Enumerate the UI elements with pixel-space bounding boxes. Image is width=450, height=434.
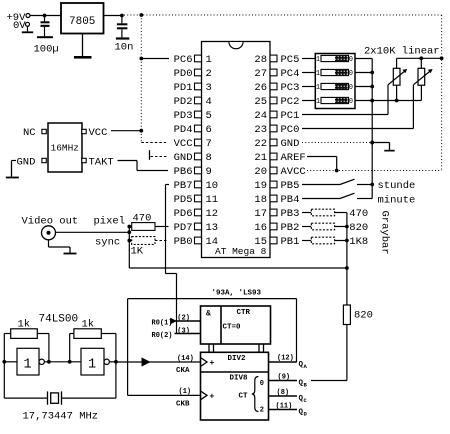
svg-text:VCC: VCC — [174, 138, 193, 150]
svg-text:0: 0 — [349, 70, 353, 78]
svg-text:CT=0: CT=0 — [223, 323, 242, 331]
svg-text:AT Mega 8: AT Mega 8 — [215, 246, 267, 257]
svg-text:PC3: PC3 — [281, 82, 300, 94]
svg-text:+: + — [210, 359, 215, 368]
svg-text:AREF: AREF — [281, 152, 306, 164]
svg-text:sync: sync — [95, 236, 120, 248]
svg-text:8: 8 — [206, 152, 212, 164]
svg-text:25: 25 — [254, 96, 267, 108]
svg-text:PC6: PC6 — [174, 54, 193, 66]
svg-text:+: + — [210, 392, 215, 401]
svg-text:PC5: PC5 — [281, 54, 300, 66]
svg-text:CTR: CTR — [237, 309, 251, 317]
svg-text:5: 5 — [206, 110, 212, 122]
svg-text:1: 1 — [24, 357, 32, 372]
svg-text:7805: 7805 — [69, 16, 95, 28]
svg-text:10: 10 — [206, 180, 219, 192]
svg-text:PD2: PD2 — [174, 96, 193, 108]
svg-text:18: 18 — [254, 194, 267, 206]
svg-text:PC1: PC1 — [281, 110, 300, 122]
svg-text:(12): (12) — [277, 355, 294, 363]
svg-text:minute: minute — [378, 195, 416, 207]
svg-text:GND: GND — [17, 156, 36, 168]
svg-text:(11): (11) — [276, 402, 293, 410]
svg-text:2x10K linear: 2x10K linear — [364, 45, 440, 57]
svg-text:(8): (8) — [277, 389, 290, 397]
svg-text:23: 23 — [254, 124, 267, 136]
svg-text:0V: 0V — [13, 20, 26, 32]
svg-text:27: 27 — [254, 68, 267, 80]
svg-text:PB7: PB7 — [174, 180, 193, 192]
svg-text:7: 7 — [206, 138, 212, 150]
svg-text:(14): (14) — [177, 355, 194, 363]
svg-text:820: 820 — [354, 310, 373, 322]
svg-text:VCC: VCC — [89, 127, 108, 139]
svg-text:13: 13 — [206, 222, 219, 234]
svg-text:&: & — [206, 309, 211, 318]
svg-text:12: 12 — [206, 208, 219, 220]
svg-text:2: 2 — [206, 68, 212, 80]
svg-text:10n: 10n — [115, 42, 134, 54]
svg-text:21: 21 — [254, 152, 267, 164]
svg-text:1: 1 — [316, 84, 320, 92]
svg-text:9: 9 — [206, 166, 212, 178]
svg-text:PB5: PB5 — [281, 180, 300, 192]
svg-text:1: 1 — [316, 98, 320, 106]
svg-text:19: 19 — [254, 180, 267, 192]
svg-text:PB4: PB4 — [281, 194, 300, 206]
svg-text:1: 1 — [316, 56, 320, 64]
svg-text:16MHz: 16MHz — [51, 142, 80, 153]
svg-text:PB2: PB2 — [281, 222, 300, 234]
svg-text:4: 4 — [206, 96, 212, 108]
svg-text:TAKT: TAKT — [89, 156, 114, 168]
svg-text:20: 20 — [254, 166, 267, 178]
svg-text:6: 6 — [206, 124, 212, 136]
svg-text:GND: GND — [281, 138, 300, 150]
svg-text:PD3: PD3 — [174, 110, 193, 122]
svg-text:PC0: PC0 — [281, 124, 300, 136]
svg-text:0: 0 — [260, 380, 264, 388]
svg-text:2: 2 — [260, 407, 264, 415]
svg-text:3: 3 — [206, 82, 212, 94]
svg-text:PD4: PD4 — [174, 124, 193, 136]
svg-text:PC2: PC2 — [281, 96, 300, 108]
svg-text:1: 1 — [206, 54, 212, 66]
svg-text:17: 17 — [254, 208, 267, 220]
svg-text:1: 1 — [316, 70, 320, 78]
svg-text:1K: 1K — [131, 245, 144, 257]
svg-text:(9): (9) — [278, 373, 291, 381]
svg-text:16: 16 — [254, 222, 267, 234]
svg-text:PB0: PB0 — [174, 236, 193, 248]
svg-text:PB1: PB1 — [281, 236, 300, 248]
svg-text:CKA: CKA — [176, 367, 190, 375]
svg-text:26: 26 — [254, 82, 267, 94]
svg-text:28: 28 — [254, 54, 267, 66]
svg-text:NC: NC — [23, 127, 36, 139]
svg-text:CKB: CKB — [176, 400, 190, 408]
svg-text:22: 22 — [254, 138, 267, 150]
svg-text:PB3: PB3 — [281, 208, 300, 220]
svg-text:24: 24 — [254, 110, 267, 122]
svg-text:stunde: stunde — [378, 180, 416, 192]
svg-text:Graybar: Graybar — [379, 211, 391, 255]
svg-text:0: 0 — [349, 84, 353, 92]
svg-text:PD7: PD7 — [174, 222, 193, 234]
svg-text:PD6: PD6 — [174, 208, 193, 220]
svg-text:R0(1): R0(1) — [152, 319, 173, 327]
svg-text:74LS00: 74LS00 — [39, 313, 79, 325]
svg-text:Video out: Video out — [22, 216, 79, 228]
svg-text:470: 470 — [133, 212, 152, 224]
svg-text:AVCC: AVCC — [281, 166, 306, 178]
svg-text:DIV2: DIV2 — [228, 355, 247, 363]
svg-text:CT: CT — [239, 392, 249, 400]
svg-text:1: 1 — [88, 357, 96, 372]
svg-text:pixel: pixel — [94, 216, 126, 228]
svg-text:PD5: PD5 — [174, 194, 193, 206]
svg-text:11: 11 — [206, 194, 219, 206]
svg-text:R0(2): R0(2) — [152, 332, 173, 340]
svg-text:PB6: PB6 — [174, 166, 193, 178]
svg-text:470: 470 — [349, 208, 368, 220]
svg-text:PD1: PD1 — [174, 82, 193, 94]
svg-text:PD0: PD0 — [174, 68, 193, 80]
svg-text:PC4: PC4 — [281, 68, 300, 80]
svg-text:17,73447 MHz: 17,73447 MHz — [23, 411, 99, 423]
svg-text:GND: GND — [174, 152, 193, 164]
svg-text:0: 0 — [349, 98, 353, 106]
svg-text:(1): (1) — [179, 388, 192, 396]
svg-text:'93A, 'LS93: '93A, 'LS93 — [212, 289, 262, 297]
svg-text:100µ: 100µ — [34, 44, 59, 56]
svg-text:0: 0 — [349, 56, 353, 64]
svg-text:DIV8: DIV8 — [230, 374, 249, 382]
svg-text:1K8: 1K8 — [349, 236, 368, 248]
svg-text:820: 820 — [349, 222, 368, 234]
